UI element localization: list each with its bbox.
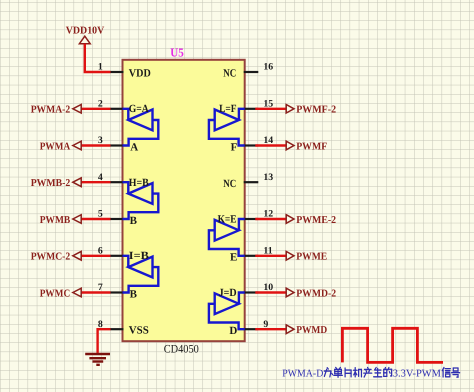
pin 14 (244, 144, 259, 146)
svg-text:3.3V-PWM: 3.3V-PWM (393, 368, 442, 379)
pin 10 (244, 291, 259, 293)
pin 9 (244, 328, 259, 330)
pin 16 (244, 71, 259, 73)
port PWMB-2 (73, 178, 81, 187)
buffer U5c (left) (123, 256, 159, 293)
pin 8 (110, 328, 123, 330)
pin 15 (244, 108, 259, 110)
svg-text:U5: U5 (170, 45, 184, 59)
svg-text:PWMA: PWMA (40, 141, 71, 152)
wire pin 3 (81, 144, 110, 146)
svg-text:NC: NC (223, 68, 236, 80)
svg-text:PWMC: PWMC (40, 288, 71, 299)
pin 3 (110, 144, 123, 146)
pin 1 (110, 71, 123, 73)
svg-text:PWMD: PWMD (296, 325, 327, 336)
pin 11 (244, 255, 259, 257)
port PWME (286, 251, 294, 260)
svg-text:E: E (230, 252, 237, 264)
svg-text:16: 16 (263, 62, 273, 73)
svg-text:PWMF-2: PWMF-2 (296, 105, 336, 116)
svg-text:CD4050: CD4050 (164, 343, 199, 355)
svg-text:VDD: VDD (129, 67, 151, 79)
svg-text:D: D (229, 325, 237, 337)
wire pin 2 (81, 108, 110, 110)
svg-text:B: B (130, 215, 138, 227)
port PWMA (73, 141, 81, 150)
port PWMF-2 (286, 105, 294, 114)
pin 4 (110, 181, 123, 183)
buffer U5a (left) (123, 109, 159, 146)
svg-text:PWMA-D: PWMA-D (282, 368, 323, 379)
svg-text:PWME: PWME (296, 252, 327, 263)
wire pin 7 (81, 291, 110, 293)
pin 7 (110, 291, 123, 293)
wire pin 9 (255, 328, 286, 330)
wire VDD10V to pin 1 (85, 44, 111, 72)
wire pin 14 (255, 144, 286, 146)
buffer U5f (right) (209, 109, 245, 146)
svg-text:G=A: G=A (129, 103, 149, 115)
wire pin 5 (81, 218, 110, 220)
svg-text:VSS: VSS (129, 325, 149, 337)
svg-text:K=E: K=E (218, 214, 237, 226)
svg-text:J=D: J=D (219, 287, 237, 299)
pin 6 (110, 255, 123, 257)
svg-text:L=F: L=F (219, 103, 237, 115)
IC U5 CD4050 body (123, 60, 245, 341)
port PWMA-2 (73, 105, 81, 114)
svg-text:PWME-2: PWME-2 (296, 215, 336, 226)
svg-text:I=B: I=B (129, 250, 150, 262)
port PWMB (73, 215, 81, 224)
pin 5 (110, 218, 123, 220)
svg-text:PWMD-2: PWMD-2 (296, 288, 336, 299)
port PWMC (73, 288, 81, 297)
port PWMD-2 (286, 288, 294, 297)
svg-text:PWMF: PWMF (296, 141, 327, 152)
buffer U5d (right) (209, 293, 245, 330)
svg-text:PWMB: PWMB (40, 215, 71, 226)
svg-text:13: 13 (263, 172, 273, 183)
svg-text:B: B (130, 288, 138, 300)
ground symbol (85, 353, 110, 355)
wire pin 10 (255, 291, 286, 293)
port PWMC-2 (73, 251, 81, 260)
buffer U5e (right) (209, 219, 245, 256)
svg-text:VDD10V: VDD10V (66, 26, 105, 37)
svg-text:A: A (130, 141, 138, 153)
svg-text:NC: NC (223, 178, 236, 190)
port PWMF (286, 141, 294, 150)
svg-text:PWMB-2: PWMB-2 (31, 178, 71, 189)
svg-text:H=B: H=B (129, 177, 150, 189)
pin 13 (244, 181, 259, 183)
port PWME-2 (286, 215, 294, 224)
wire pin 8 to ground (98, 329, 111, 353)
wire pin 15 (255, 108, 286, 110)
port PWMD (286, 325, 294, 334)
svg-text:PWMA-2: PWMA-2 (31, 105, 71, 116)
wire pin 12 (255, 218, 286, 220)
pin 2 (110, 108, 123, 110)
wire pin 4 (81, 181, 110, 183)
wire pin 6 (81, 255, 110, 257)
pin 12 (244, 218, 259, 220)
svg-text:F: F (231, 141, 238, 153)
caption CJK glyphs (324, 368, 332, 377)
PWM waveform graphic (342, 328, 443, 362)
buffer U5b (left) (123, 182, 159, 219)
svg-text:PWMC-2: PWMC-2 (31, 252, 71, 263)
wire pin 11 (255, 255, 286, 257)
